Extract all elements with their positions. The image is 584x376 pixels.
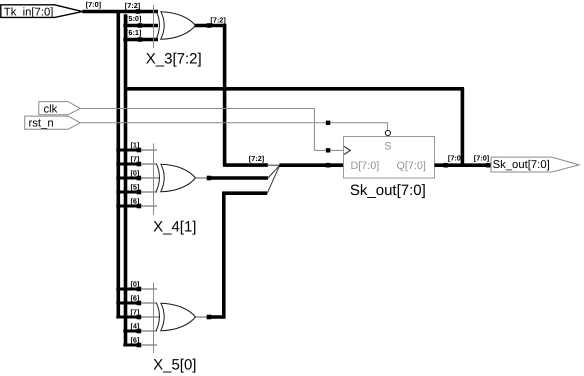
wire X_3 output: [195, 24, 227, 28]
xor gate X_4: [156, 164, 196, 193]
wire tap [0]: [116, 288, 141, 291]
wire tap [7]: [116, 163, 141, 166]
wire tap [6]: [116, 302, 141, 305]
svg-text:X_3[7:2]: X_3[7:2]: [146, 51, 202, 68]
wire X_4 output stub: [196, 177, 209, 179]
X_4 input taps: [116, 141, 160, 209]
svg-text:rst_n: rst_n: [29, 118, 54, 130]
input port rst_n: [25, 116, 81, 130]
junction square on Tk_in wire: [136, 9, 141, 14]
junction square tap [6:1]: [138, 37, 143, 42]
svg-text:[7:2]: [7:2]: [249, 154, 265, 163]
xor gate X_5: [156, 303, 196, 332]
wire X_3 input tap [6:1]: [123, 38, 158, 42]
junction square at output port: [486, 163, 491, 168]
S bubble: [385, 130, 390, 135]
junction square clk: [326, 148, 330, 152]
wire rst_n net: [80, 123, 387, 131]
svg-text:X_5[0]: X_5[0]: [153, 357, 196, 374]
wire Q output: [435, 163, 493, 167]
junction square X_5 output: [207, 315, 212, 320]
wire tap [1]: [116, 149, 141, 152]
input port Tk_in[7:0]: [1, 5, 83, 19]
wire tap [4]: [123, 330, 141, 333]
junction square rst_n: [326, 121, 330, 125]
svg-text:D[7:0]: D[7:0]: [351, 160, 380, 172]
wire tap [7]: [116, 316, 141, 319]
wire clk net: [80, 109, 343, 151]
junction square tap [5:0]: [138, 23, 143, 28]
wire diagonal X_5 to merge: [267, 165, 280, 193]
junction square D bus: [326, 163, 331, 168]
bus tap bar X_3: [153, 5, 155, 48]
wire feedback vertical: [461, 88, 465, 165]
input port clk: [39, 102, 81, 116]
flip-flop Sk_out[7:0] box: [344, 137, 435, 179]
svg-text:[5:0]: [5:0]: [126, 14, 142, 23]
bus tap bar X_4: [153, 144, 155, 216]
svg-text:[7:0]: [7:0]: [474, 153, 490, 162]
wire tap [6]: [116, 205, 141, 208]
wire X_3 input tap [5:0]: [123, 24, 158, 28]
wire feedback horizontal: [126, 87, 465, 91]
svg-text:clk: clk: [44, 103, 58, 115]
svg-text:Sk_out[7:0]: Sk_out[7:0]: [350, 182, 426, 199]
bus tap bar X_5: [153, 283, 155, 354]
wire thin connector to merge point: [268, 164, 281, 166]
svg-text:Q[7:0]: Q[7:0]: [397, 160, 426, 172]
wire bus V1 (Tk_in vertical): [117, 10, 121, 317]
junction square Q: [444, 163, 449, 168]
wire tap [5]: [116, 191, 141, 194]
svg-text:Sk_out[7:0]: Sk_out[7:0]: [493, 159, 550, 171]
svg-text:Tk_in[7:0]: Tk_in[7:0]: [4, 6, 54, 18]
wire X_4 output bus: [207, 176, 268, 180]
wire tap [6] low: [123, 344, 141, 347]
svg-text:[6:1]: [6:1]: [126, 28, 142, 37]
wire bus V4 X_5 output up: [222, 193, 226, 317]
junction square X_4 output: [207, 176, 212, 181]
svg-text:[7:2]: [7:2]: [125, 1, 141, 10]
wire tap [0]: [116, 177, 141, 180]
output port Sk_out[7:0]: [491, 157, 579, 172]
wire Tk_in bus to X_3 top input: [82, 10, 158, 14]
wire X_5 output stub: [196, 316, 209, 318]
wire bus V2 (feedback vertical): [124, 14, 128, 345]
wire D bus: [279, 163, 343, 167]
svg-text:S: S: [384, 141, 391, 153]
svg-text:[7:2]: [7:2]: [210, 15, 226, 24]
svg-text:[7:0]: [7:0]: [86, 0, 102, 9]
wire X_3 merge segment: [223, 163, 268, 167]
junction square X_3 output: [207, 23, 212, 28]
clock triangle: [344, 146, 350, 154]
svg-text:X_4[1]: X_4[1]: [153, 219, 196, 236]
svg-text:[7:0: [7:0: [448, 153, 461, 162]
wire X_5 output bus: [207, 315, 226, 319]
xor gate X_3: [156, 11, 196, 40]
X_5 input taps: [116, 280, 160, 348]
wire bus V3 X_3 output down: [223, 26, 227, 166]
wire diagonal X_4 to merge: [268, 165, 280, 178]
wire X_5 merge segment: [222, 191, 267, 195]
